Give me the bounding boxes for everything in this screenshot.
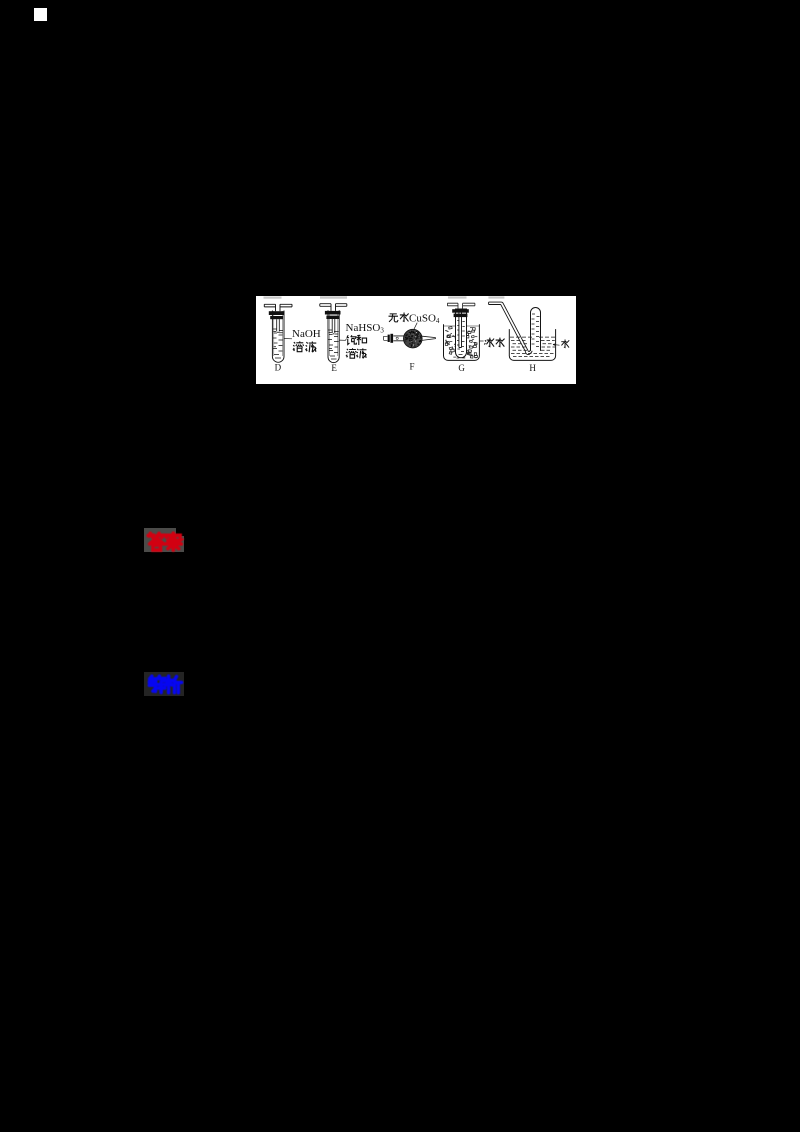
pointer line D [284,338,292,340]
inner tube stub D [277,319,280,332]
right nozzle F [422,336,435,340]
ice water texture G [445,327,477,358]
label 溶液 (E) [346,348,367,358]
test tube G body [456,309,467,358]
drying bulb F [404,329,423,348]
label 无水 [389,313,409,322]
svg-text:E: E [331,363,337,373]
delivery T-tube G [447,303,475,309]
label 冰水 [484,338,504,347]
pointer line H [553,344,560,346]
left inlet tube F [384,334,405,343]
label 水 (H) [561,339,569,347]
water texture H [511,341,555,357]
white marker square top-left [34,8,47,21]
svg-text:H: H [529,363,536,373]
label 溶液 (D) [293,341,316,352]
beaker H [509,329,555,360]
pointer line F [413,323,417,331]
water surface H [510,336,555,338]
pointer line G [480,340,484,342]
svg-text:NaHSO3: NaHSO3 [346,322,385,335]
inner tube stub E [332,319,335,334]
water in tube H [532,314,540,347]
stopper E [325,311,341,319]
tube end curl H [526,350,533,355]
svg-text:CuSO4: CuSO4 [409,313,440,325]
svg-text:NaOH: NaOH [292,328,321,340]
svg-text:F: F [410,361,415,371]
stopper G [452,309,469,317]
test tube D body [272,311,284,363]
beaker G [444,324,480,360]
stopper D [269,311,285,319]
liquid in E [329,330,339,359]
label 饱和 [347,335,367,345]
condensate dashes in tube G [457,321,465,355]
liquid in D [273,329,283,358]
pointer line E [339,339,346,341]
red answer badge 答案 [144,528,176,552]
test tube E body [328,310,339,362]
svg-text:D: D [275,362,282,372]
svg-text:G: G [458,363,465,373]
inner delivery tube G [459,310,462,348]
inverted test tube H [531,308,541,351]
diagram image box [256,296,576,384]
faint scan smudges [264,296,505,298]
delivery T-tube E [320,304,347,311]
bent delivery tube H [489,302,533,354]
blue analysis badge 解析 [144,672,184,696]
delivery T-tube D [264,304,292,311]
